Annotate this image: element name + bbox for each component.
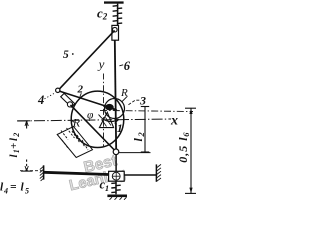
label R left with arrow xyxy=(71,116,81,130)
bottom slider pin xyxy=(112,172,120,180)
joint J1 (links 2-4-5) xyxy=(56,88,60,92)
svg-text:2: 2 xyxy=(77,84,84,96)
svg-text:5: 5 xyxy=(25,187,29,196)
svg-text:4: 4 xyxy=(37,93,44,107)
vertical centerline xyxy=(103,74,105,147)
link 6 xyxy=(115,40,116,152)
label 0,5 l6 (rotated) xyxy=(176,132,191,163)
ceiling support xyxy=(104,1,124,3)
pivot dot xyxy=(105,104,117,111)
dimension 0.5 l6 line xyxy=(185,108,196,194)
link to right wall xyxy=(124,174,156,176)
svg-text:y: y xyxy=(97,57,105,72)
svg-text:=: = xyxy=(10,182,17,194)
link 2 xyxy=(59,91,110,108)
label c1 xyxy=(100,178,110,193)
axis label y xyxy=(97,57,105,72)
svg-text:6: 6 xyxy=(181,132,191,137)
small circle (hub) xyxy=(105,99,125,119)
support triangle under pivot xyxy=(99,112,113,127)
link 5 xyxy=(58,30,115,90)
bottom joint circle xyxy=(113,149,119,155)
svg-text:x: x xyxy=(170,113,178,128)
label 1 xyxy=(115,121,123,135)
label c2 xyxy=(97,5,108,21)
svg-text:0,5 l: 0,5 l xyxy=(176,136,190,162)
equation l4 = l5 xyxy=(0,182,29,196)
ground under spring xyxy=(107,195,127,200)
bottom slider box xyxy=(109,171,125,181)
disc 1 (big circle) xyxy=(71,91,124,147)
label 4 xyxy=(37,93,56,107)
slider box on spring xyxy=(112,25,119,40)
svg-text:1: 1 xyxy=(105,183,109,193)
spring c2 xyxy=(113,4,123,26)
label 3 with leader xyxy=(128,93,146,107)
lever to left wall xyxy=(44,172,109,174)
svg-text:l: l xyxy=(131,138,145,142)
left wall with hatching xyxy=(40,165,44,181)
svg-text:2: 2 xyxy=(136,132,146,138)
label phi xyxy=(87,109,94,121)
phi rotation arc with arrow xyxy=(99,115,119,123)
svg-text:l: l xyxy=(21,182,25,194)
svg-text:2: 2 xyxy=(12,133,21,138)
axis label x xyxy=(170,113,178,128)
svg-text:2: 2 xyxy=(102,12,108,22)
bottom joint extension line xyxy=(119,152,151,154)
dimension l2 line xyxy=(141,106,149,152)
svg-text:1: 1 xyxy=(117,121,123,135)
svg-text:+: + xyxy=(8,143,20,149)
svg-text:5: 5 xyxy=(63,49,69,61)
label 6 xyxy=(119,59,130,73)
pivot horizontal dash-dot xyxy=(100,110,193,111)
label R right with leader xyxy=(120,87,128,102)
label l2 (rotated) xyxy=(131,132,146,142)
label 5 xyxy=(63,49,74,61)
svg-text:4: 4 xyxy=(3,187,8,196)
x centerline xyxy=(17,119,171,121)
svg-text:3: 3 xyxy=(139,93,146,107)
dimension l1+l2 xyxy=(17,121,32,171)
label l1+l2 (rotated) xyxy=(8,133,21,158)
joint J2 xyxy=(67,102,72,107)
right wall with hatching xyxy=(156,164,161,181)
long link J2 to bottom joint xyxy=(71,105,116,152)
bottom extension dashes xyxy=(20,170,43,172)
rod joint to slider xyxy=(115,155,117,172)
watermark Best xyxy=(82,152,119,176)
svg-text:6: 6 xyxy=(124,59,131,73)
svg-text:R: R xyxy=(72,116,81,130)
link 4 (rotated block) xyxy=(61,93,75,107)
spring c1 xyxy=(111,181,120,194)
watermark Leaning xyxy=(68,165,128,195)
svg-text:φ: φ xyxy=(87,109,94,121)
label 2 xyxy=(77,84,84,99)
hatched base parallelogram xyxy=(57,127,92,158)
pin of slider box xyxy=(113,27,118,32)
